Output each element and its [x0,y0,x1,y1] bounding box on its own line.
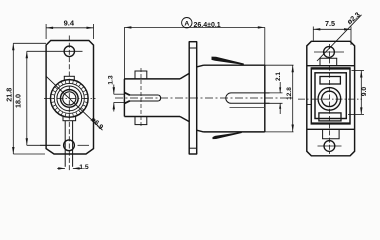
svg-text:2.1: 2.1 [275,72,282,81]
svg-text:9.4: 9.4 [64,18,75,27]
svg-text:9.0: 9.0 [361,87,368,97]
svg-text:7.5: 7.5 [325,19,335,28]
svg-text:1.3: 1.3 [107,75,114,85]
svg-text:26.4±0.1: 26.4±0.1 [194,22,221,29]
svg-text:A: A [184,20,189,27]
svg-text:1.5: 1.5 [79,164,89,171]
svg-text:18.0: 18.0 [14,94,23,108]
svg-text:12.8: 12.8 [286,87,293,100]
svg-text:21.8: 21.8 [5,88,14,102]
